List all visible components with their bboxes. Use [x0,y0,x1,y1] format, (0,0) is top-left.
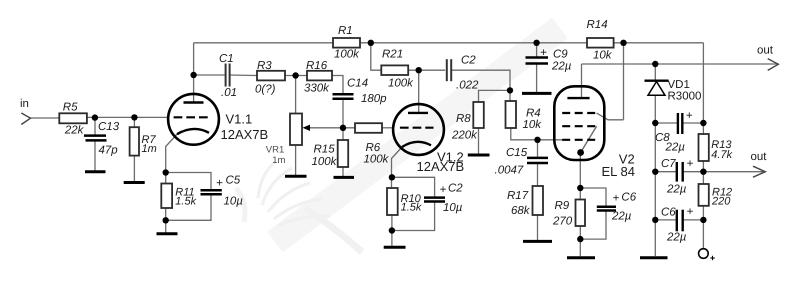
node wiper / R15 / C14 [340,125,346,131]
svg-text:C13: C13 [98,121,120,133]
node R7 junction [131,114,137,120]
node C8 left [652,120,658,126]
svg-text:10k: 10k [523,119,543,131]
svg-text:+: + [440,184,447,196]
wire C8 stubs [655,122,677,124]
resistor R6 [355,123,382,133]
node C6 right [700,217,706,223]
capacitor C15 [527,158,548,163]
svg-text:C6: C6 [621,191,636,203]
svg-text:out: out [751,151,768,163]
wire C7 stubs [655,171,676,173]
svg-text:100k: 100k [388,78,414,90]
wire R4 bottom jog to grid node [511,128,538,140]
wire R7 leads [133,117,135,127]
wire top rail left segment [194,42,333,44]
capacitor C2 (coupling) [447,59,451,81]
potentiometer VR1 [290,114,302,146]
svg-text:C15: C15 [506,147,528,159]
svg-text:12AX7B: 12AX7B [417,159,465,174]
wire R3 to R16 node [285,75,307,77]
svg-text:R14: R14 [587,19,608,31]
ground (R10) [384,246,406,249]
svg-text:22µ: 22µ [666,232,687,244]
wire C6 stubs [655,219,676,221]
capacitor C6 (output) [677,210,683,232]
node C7 left [652,169,658,175]
wire grid node to V2 [538,139,563,141]
svg-text:220k: 220k [451,130,478,142]
wire C9 leads [536,43,538,57]
svg-text:0(?): 0(?) [255,84,276,96]
node C1 / plate [190,72,196,78]
svg-text:VR1: VR1 [266,144,284,155]
ground (R9) [567,256,595,259]
wire out top line [582,63,780,65]
svg-text:1.5k: 1.5k [175,196,196,208]
wire C5 branch [166,173,211,191]
wire right corner down to R13 [702,43,704,134]
wire VD1 top lead [654,64,656,80]
wire R17 bottom to ground [537,215,539,240]
svg-text:EL 84: EL 84 [602,164,636,179]
wire input to R5 [30,117,59,119]
svg-text:VD1: VD1 [668,79,690,91]
svg-text:C1: C1 [219,53,234,65]
ground (R11) [157,232,178,235]
wire right rail segments [702,161,704,184]
svg-text:R9: R9 [555,200,570,212]
svg-text:22µ: 22µ [666,184,687,196]
svg-text:C14: C14 [347,78,368,90]
wire R10 bottom to ground [391,215,393,246]
wire R11 bottom to ground [165,208,167,233]
wire V1.1 cathode down [166,134,177,183]
pentode V2 [554,86,604,160]
node C7 right / out [700,169,706,175]
node C8 right [700,120,706,126]
wire C2 right to corner down [452,70,510,90]
ground (C9) [522,92,552,95]
wire R8 bottom to ground [478,128,480,154]
svg-text:+: + [216,178,223,190]
wire R21 to node to C2 [408,69,445,71]
svg-text:R8: R8 [456,113,471,125]
wire screen tap inside V2 [597,113,624,120]
svg-text:C5: C5 [226,174,241,186]
svg-text:in: in [20,98,29,110]
svg-text:out: out [757,44,774,56]
resistor R10 [387,188,398,215]
wire R9 bottom to ground [579,226,581,256]
svg-text:C9: C9 [553,49,568,61]
resistor R15 [338,140,349,167]
svg-text:C2: C2 [448,183,463,195]
resistor R3 [257,71,285,81]
wire VD1 bottom / left rail [654,96,656,256]
terminal (output minus) [699,249,709,259]
node R21 / V1.2 plate / C2 [416,67,422,73]
node V2 suppressor-cathode [577,149,584,156]
wire C13 leads [94,118,96,135]
svg-text:R3: R3 [257,60,272,72]
capacitor C13 [84,136,107,141]
ground (VR1) [285,175,307,178]
node V1.2 cathode [389,174,395,180]
wire VR1 wiper line [306,127,355,129]
svg-text:R5: R5 [63,101,78,113]
out top arrow [768,59,779,71]
svg-text:R21: R21 [382,48,403,60]
wire C2 bypass branch [392,177,435,197]
resistor R8 [473,102,484,128]
capacitor C2 (cathode bypass) [424,198,445,202]
ground (R8) [468,154,490,157]
svg-text:.01: .01 [221,87,237,99]
svg-text:+: + [687,206,694,218]
node C13 junction [92,114,98,120]
svg-text:+: + [686,110,693,122]
wire VR1 top lead [295,76,297,114]
wire V2 cathode down [579,153,581,200]
resistor R11 [161,184,172,209]
resistor R9 [576,200,586,227]
node V1.1 cathode / C5 [163,169,169,175]
svg-text:1.5k: 1.5k [401,202,422,214]
wire rail R14 to right corner [614,42,704,44]
node C6 left [652,217,658,223]
wire C15 leads [537,140,539,158]
svg-text:220: 220 [711,196,731,208]
VR1 wiper arrow [303,125,311,131]
capacitor C1 [226,64,230,87]
node R3 / R16 / VR1 [292,72,298,78]
watermark [236,28,560,252]
svg-text:22µ: 22µ [611,211,632,223]
svg-text:1m: 1m [142,143,157,155]
svg-text:22µ: 22µ [551,61,572,73]
capacitor C5 [201,190,222,194]
svg-text:R4: R4 [526,108,541,120]
wire R5 to V1.1 grid [87,116,169,118]
svg-text:180p: 180p [361,93,387,105]
out mid arrow [753,166,765,177]
wire V1.2 cathode down [392,147,403,188]
svg-text:47p: 47p [99,145,119,157]
svg-text:C6: C6 [661,207,676,219]
wire R15 leads [342,128,344,140]
wire V2 plate vertical to out line [581,64,583,98]
node R10 bottom [389,227,395,233]
wire R6 to V1.2 grid [382,127,394,129]
capacitor C6 (cathode bypass) [597,207,616,211]
node R11 bottom [163,217,169,223]
wire node to R4 [509,90,511,101]
svg-text:+: + [540,47,547,59]
capacitor C8 [678,113,682,134]
svg-text:270: 270 [552,216,573,228]
input connector [21,113,30,125]
resistor R14 [587,38,614,48]
ground (R15) [334,176,355,179]
svg-text:100k: 100k [312,156,338,168]
node C9 on rail [533,40,539,46]
ground (R7) [124,181,145,184]
svg-text:10k: 10k [593,49,613,61]
wire VR1 bottom lead [295,145,297,175]
wire C6 bypass branch [580,188,606,207]
wire R16 to C14 corner [332,76,343,95]
resistor R1 [333,38,360,48]
wire V1.1 plate vertical [193,43,195,102]
resistor R7 [130,127,139,155]
svg-text:V1.1: V1.1 [226,111,253,126]
node V2 cathode / R9 / C6 [577,185,583,191]
wire rail R1 to R14 [360,42,587,44]
ground (C13) [85,170,106,173]
resistor R16 [307,71,332,81]
svg-text:330k: 330k [304,83,330,95]
node R14 / screen [620,40,626,46]
svg-text:22k: 22k [64,125,85,137]
capacitor C14 [333,94,354,99]
ground (output rail) [640,256,668,259]
wire V2 suppressor tie [581,126,597,152]
svg-text:C7: C7 [661,158,676,170]
svg-text:100k: 100k [364,153,390,165]
wire out mid line [703,171,765,173]
triode V1.2 [393,104,444,155]
svg-text:12AX7B: 12AX7B [221,127,269,142]
svg-text:R1: R1 [338,25,353,37]
svg-text:1m: 1m [272,155,285,166]
node R9 bottom [577,236,583,242]
wire C14 bottom to wiper node [342,99,344,129]
wire V1.2 plate vertical [418,70,420,113]
svg-text:+: + [613,193,620,205]
node VD1 on out line [652,61,658,67]
resistor R21 [381,65,408,75]
wire screen grid vertical [623,43,625,120]
wire C1 branch [194,74,226,76]
svg-text:R15: R15 [314,143,336,155]
svg-text:.0047: .0047 [495,164,524,176]
resistor R17 [533,186,544,215]
resistor R12 [699,184,709,206]
node C2 / R8 / R4 [507,87,513,93]
svg-text:10µ: 10µ [224,195,244,207]
svg-text:68k: 68k [511,205,531,217]
wire R1 node down to R21 [371,43,382,70]
wire node jog to R8 [479,90,511,102]
node R1 right [368,40,374,46]
resistor R4 [506,101,517,128]
svg-text:4.7k: 4.7k [711,149,732,161]
node R4 / C15 / V2 grid [534,137,540,143]
svg-text:100k: 100k [334,49,360,61]
resistor R5 [59,113,87,123]
svg-text:R6: R6 [366,142,381,154]
ground (R17) [523,240,552,243]
capacitor C7 [677,162,683,182]
svg-text:R16: R16 [306,60,328,72]
svg-text:10µ: 10µ [443,202,463,214]
triode V1.1 [168,94,219,145]
diode VD1 [645,81,669,96]
svg-text:+: + [687,158,694,170]
svg-text:C2: C2 [461,55,476,67]
svg-text:R17: R17 [507,190,529,202]
capacitor C9 [526,58,549,64]
svg-text:.022: .022 [456,80,479,92]
resistor R13 [699,134,709,161]
svg-text:22µ: 22µ [665,141,686,153]
svg-text:R3000: R3000 [668,91,702,103]
